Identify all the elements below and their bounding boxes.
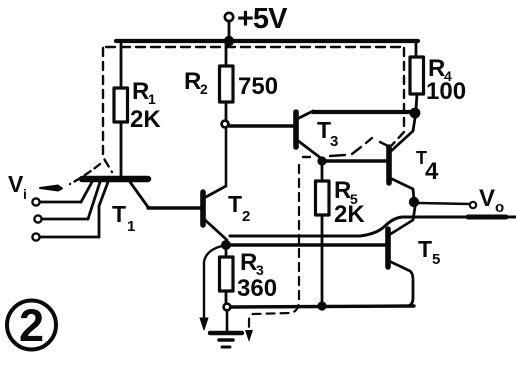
wire R3 node to ground xyxy=(226,310,229,332)
svg-text:R: R xyxy=(240,249,257,276)
label +5V xyxy=(237,3,288,35)
svg-text:360: 360 xyxy=(237,275,277,302)
svg-text:o: o xyxy=(495,199,504,216)
wire top +5V rail xyxy=(116,39,418,43)
wire output node to Vo terminal xyxy=(419,203,470,204)
wire input 2 xyxy=(42,218,88,221)
arrow dashed path ground xyxy=(245,330,253,342)
label T4 xyxy=(416,148,439,185)
label T3 xyxy=(317,117,338,150)
node input terminal 2 xyxy=(34,215,41,222)
label T1 xyxy=(112,201,135,235)
wire dashed path below rail xyxy=(106,46,404,48)
wire T2 emitter to T5 base xyxy=(226,243,385,247)
svg-text:2K: 2K xyxy=(334,201,365,228)
svg-text:+5V: +5V xyxy=(237,3,288,35)
svg-text:100: 100 xyxy=(426,78,466,105)
node T2 emitter junction xyxy=(221,240,231,250)
resistor R4 xyxy=(410,41,424,109)
node input terminal 1 xyxy=(32,198,39,205)
node +5V junction xyxy=(224,36,234,46)
transistor T2 xyxy=(203,186,227,240)
node R2 bottom junction xyxy=(222,121,229,128)
wire input 1 xyxy=(40,201,81,204)
node Vo terminal circle xyxy=(470,202,476,208)
label R4 100 xyxy=(426,55,466,105)
svg-text:T: T xyxy=(228,191,242,217)
wire dashed path around R5 to ground arrow xyxy=(249,165,299,334)
label T5 xyxy=(418,236,440,268)
svg-text:i: i xyxy=(23,186,27,202)
wire T1 collector to T2 base xyxy=(148,206,201,209)
ground xyxy=(210,333,242,347)
svg-text:2: 2 xyxy=(242,208,250,225)
svg-text:2: 2 xyxy=(200,81,208,97)
svg-text:2K: 2K xyxy=(130,106,161,133)
resistor R1 xyxy=(114,41,128,176)
label R3 360 xyxy=(237,249,277,302)
wire +5V stub xyxy=(228,21,231,41)
svg-text:T: T xyxy=(317,117,331,143)
wire dashed path right vertical xyxy=(392,48,404,145)
transistor T4 xyxy=(389,118,415,199)
svg-text:5: 5 xyxy=(432,251,440,268)
svg-text:750: 750 xyxy=(238,73,278,100)
resistor R5 xyxy=(316,163,330,305)
svg-text:4: 4 xyxy=(425,158,439,185)
resistor R3 xyxy=(220,245,234,303)
label figure number 2 xyxy=(7,300,56,351)
transistor T5 xyxy=(388,207,415,306)
svg-text:V: V xyxy=(479,185,495,212)
svg-text:2: 2 xyxy=(19,300,44,351)
node R5 ground junction xyxy=(317,301,326,310)
node +5V terminal circle xyxy=(225,13,233,21)
label Vi xyxy=(8,171,27,202)
svg-text:R: R xyxy=(184,68,201,95)
svg-text:3: 3 xyxy=(330,133,338,150)
label Vo xyxy=(479,185,504,216)
wire emitter node curve down with arrow xyxy=(200,246,222,330)
wire ground bus xyxy=(231,306,414,307)
transistor T3 xyxy=(296,111,322,159)
node output junction xyxy=(409,197,419,207)
node input terminal 3 xyxy=(32,233,39,240)
label T2 xyxy=(228,191,250,225)
wire output line from left curving to right edge xyxy=(230,217,516,236)
wire input 3 xyxy=(40,236,99,239)
label R5 2K xyxy=(334,177,365,228)
label R2 750 xyxy=(184,68,278,100)
svg-text:V: V xyxy=(8,171,24,197)
wire dashed path left vertical xyxy=(103,48,112,172)
node T3 emitter R5 junction xyxy=(317,156,326,165)
svg-text:T: T xyxy=(418,236,432,262)
node T3 collector R4 junction xyxy=(410,108,421,119)
wire T3 collector to R4 node xyxy=(313,110,412,114)
svg-text:1: 1 xyxy=(127,218,135,235)
svg-text:T: T xyxy=(112,201,126,227)
wire R2 node down to T2 collector xyxy=(225,128,228,186)
svg-text:R: R xyxy=(132,78,149,105)
wire dashed hook over T4 xyxy=(303,138,388,157)
wire dashed curve to Vi with arrow xyxy=(40,164,100,191)
node R3 bottom junction xyxy=(224,304,231,311)
wire T3 emitter node to T4 base xyxy=(322,159,386,162)
svg-text:R: R xyxy=(334,177,351,204)
transistor T1 multi-emitter xyxy=(81,179,148,237)
svg-text:1: 1 xyxy=(148,91,156,107)
label R1 2K xyxy=(130,78,161,133)
wire R2 node to T3 base xyxy=(229,124,294,128)
resistor R2 xyxy=(220,41,234,121)
